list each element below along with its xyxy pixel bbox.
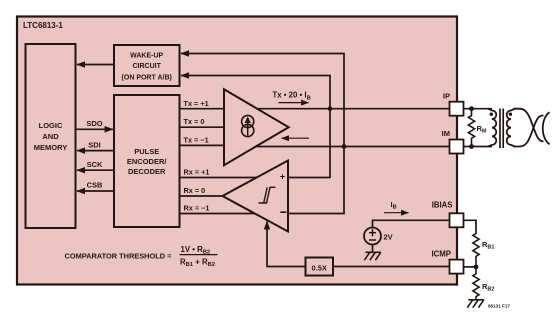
comparator U2	[223, 161, 289, 232]
wire Tx=+1	[180, 99, 225, 109]
transformer T1 secondary winding	[507, 109, 515, 147]
svg-text:0.5X: 0.5X	[311, 264, 326, 273]
wire IP line	[257, 108, 449, 110]
wire IM square to transformer	[464, 146, 493, 148]
comparator threshold formula	[65, 245, 218, 268]
transformer T1 primary winding	[488, 109, 496, 147]
wire twisted pair upper	[514, 109, 544, 142]
transformer core	[500, 109, 503, 149]
svg-text:Rx = +1: Rx = +1	[184, 167, 210, 176]
label IB with arrow	[384, 200, 409, 213]
svg-text:Rx = 0: Rx = 0	[184, 186, 206, 195]
resistor RB2	[473, 267, 495, 300]
svg-text:CIRCUIT: CIRCUIT	[133, 63, 162, 70]
svg-text:RB2: RB2	[482, 282, 494, 293]
junction IM/comparator-	[342, 144, 347, 149]
wire Rx=+1	[180, 167, 257, 177]
svg-text:(ON PORT A/B): (ON PORT A/B)	[122, 74, 172, 81]
svg-text:Rx = −1: Rx = −1	[184, 203, 210, 212]
wire wake-up lower (from IP sense vertical)	[181, 76, 330, 178]
label Tx*20*IB with arrow	[273, 91, 311, 103]
wire IM line	[256, 146, 450, 148]
svg-text:2V: 2V	[384, 233, 393, 242]
wire Rx=-1	[180, 203, 256, 213]
twisted pair continuation arc	[543, 112, 550, 144]
wire SDI	[77, 140, 114, 150]
svg-text:SDI: SDI	[88, 140, 101, 149]
block WAKE-UP CIRCUIT	[114, 45, 180, 86]
svg-text:DECODER: DECODER	[128, 167, 166, 176]
svg-text:RB1: RB1	[482, 240, 494, 251]
voltage source 2V	[364, 228, 393, 245]
wire ICMP to RB junction	[464, 266, 477, 268]
svg-text:Tx = −1: Tx = −1	[184, 136, 209, 145]
svg-text:LTC6813-1: LTC6813-1	[23, 21, 63, 30]
svg-text:CSB: CSB	[87, 181, 103, 190]
pin IM	[442, 129, 464, 153]
svg-text:AND: AND	[42, 132, 59, 141]
wire SDO	[76, 119, 113, 129]
ground under RB2	[467, 300, 484, 308]
wire wake-up to logic	[77, 64, 114, 66]
pin IBIAS	[432, 200, 464, 227]
wire 2V source to IBIAS	[373, 220, 450, 227]
svg-text:ICMP: ICMP	[432, 249, 452, 258]
svg-text:COMPARATOR THRESHOLD =: COMPARATOR THRESHOLD =	[65, 252, 173, 261]
wire IBIAS to RB1	[464, 220, 477, 231]
junction RM bottom	[469, 144, 474, 149]
junction RM top	[469, 106, 474, 111]
svg-text:MEMORY: MEMORY	[34, 143, 67, 152]
arrow return current on IM line	[282, 137, 310, 139]
svg-text:PULSE: PULSE	[134, 147, 159, 156]
wire CSB	[77, 181, 114, 191]
svg-text:Tx = 0: Tx = 0	[184, 117, 205, 126]
wire comparator + input	[288, 177, 331, 179]
wire SCK	[77, 160, 114, 170]
driver amplifier A1	[224, 89, 289, 165]
ground under 2V	[364, 252, 380, 260]
block U-LOGIC (LOGIC AND MEMORY)	[26, 44, 76, 228]
svg-text:68131 F17: 68131 F17	[488, 304, 510, 309]
block 0.5X	[306, 258, 334, 276]
wire comparator - input	[288, 213, 345, 215]
wire 0.5X to ICMP	[333, 266, 450, 268]
comparator - input label	[280, 211, 286, 213]
svg-text:SCK: SCK	[87, 160, 103, 169]
svg-text:IP: IP	[443, 92, 450, 101]
block PULSE ENCODER/DECODER	[114, 95, 180, 227]
svg-text:SDO: SDO	[86, 119, 102, 128]
pin IP	[443, 92, 464, 116]
svg-text:LOGIC: LOGIC	[39, 121, 63, 130]
current source symbol inside driver	[242, 115, 254, 136]
IC outline LTC6813-1	[17, 17, 457, 285]
junction IP/comparator+	[328, 106, 333, 111]
svg-text:+: +	[280, 172, 285, 182]
svg-text:WAKE-UP: WAKE-UP	[130, 53, 163, 60]
junction RB1/RB2	[474, 265, 479, 270]
feedback wire from 0.5X to comparator	[267, 222, 306, 267]
resistor RB1	[473, 232, 495, 267]
wire wake-up upper (from IM sense vertical)	[181, 54, 344, 214]
wire twisted pair lower	[514, 115, 544, 146]
wire 2V to ground	[372, 245, 374, 253]
resistor RM	[468, 109, 487, 147]
wire Tx=0	[180, 117, 225, 127]
pin ICMP	[432, 249, 464, 273]
svg-text:IM: IM	[442, 129, 450, 138]
hysteresis symbol	[259, 187, 276, 203]
svg-text:Tx = +1: Tx = +1	[184, 99, 209, 108]
svg-text:IBIAS: IBIAS	[432, 200, 453, 209]
wire IP square to transformer	[464, 108, 493, 110]
svg-text:ENCODER/: ENCODER/	[127, 157, 168, 166]
wire Tx=-1	[180, 136, 225, 146]
svg-text:RM: RM	[477, 124, 487, 135]
wire Rx=0	[180, 186, 223, 196]
